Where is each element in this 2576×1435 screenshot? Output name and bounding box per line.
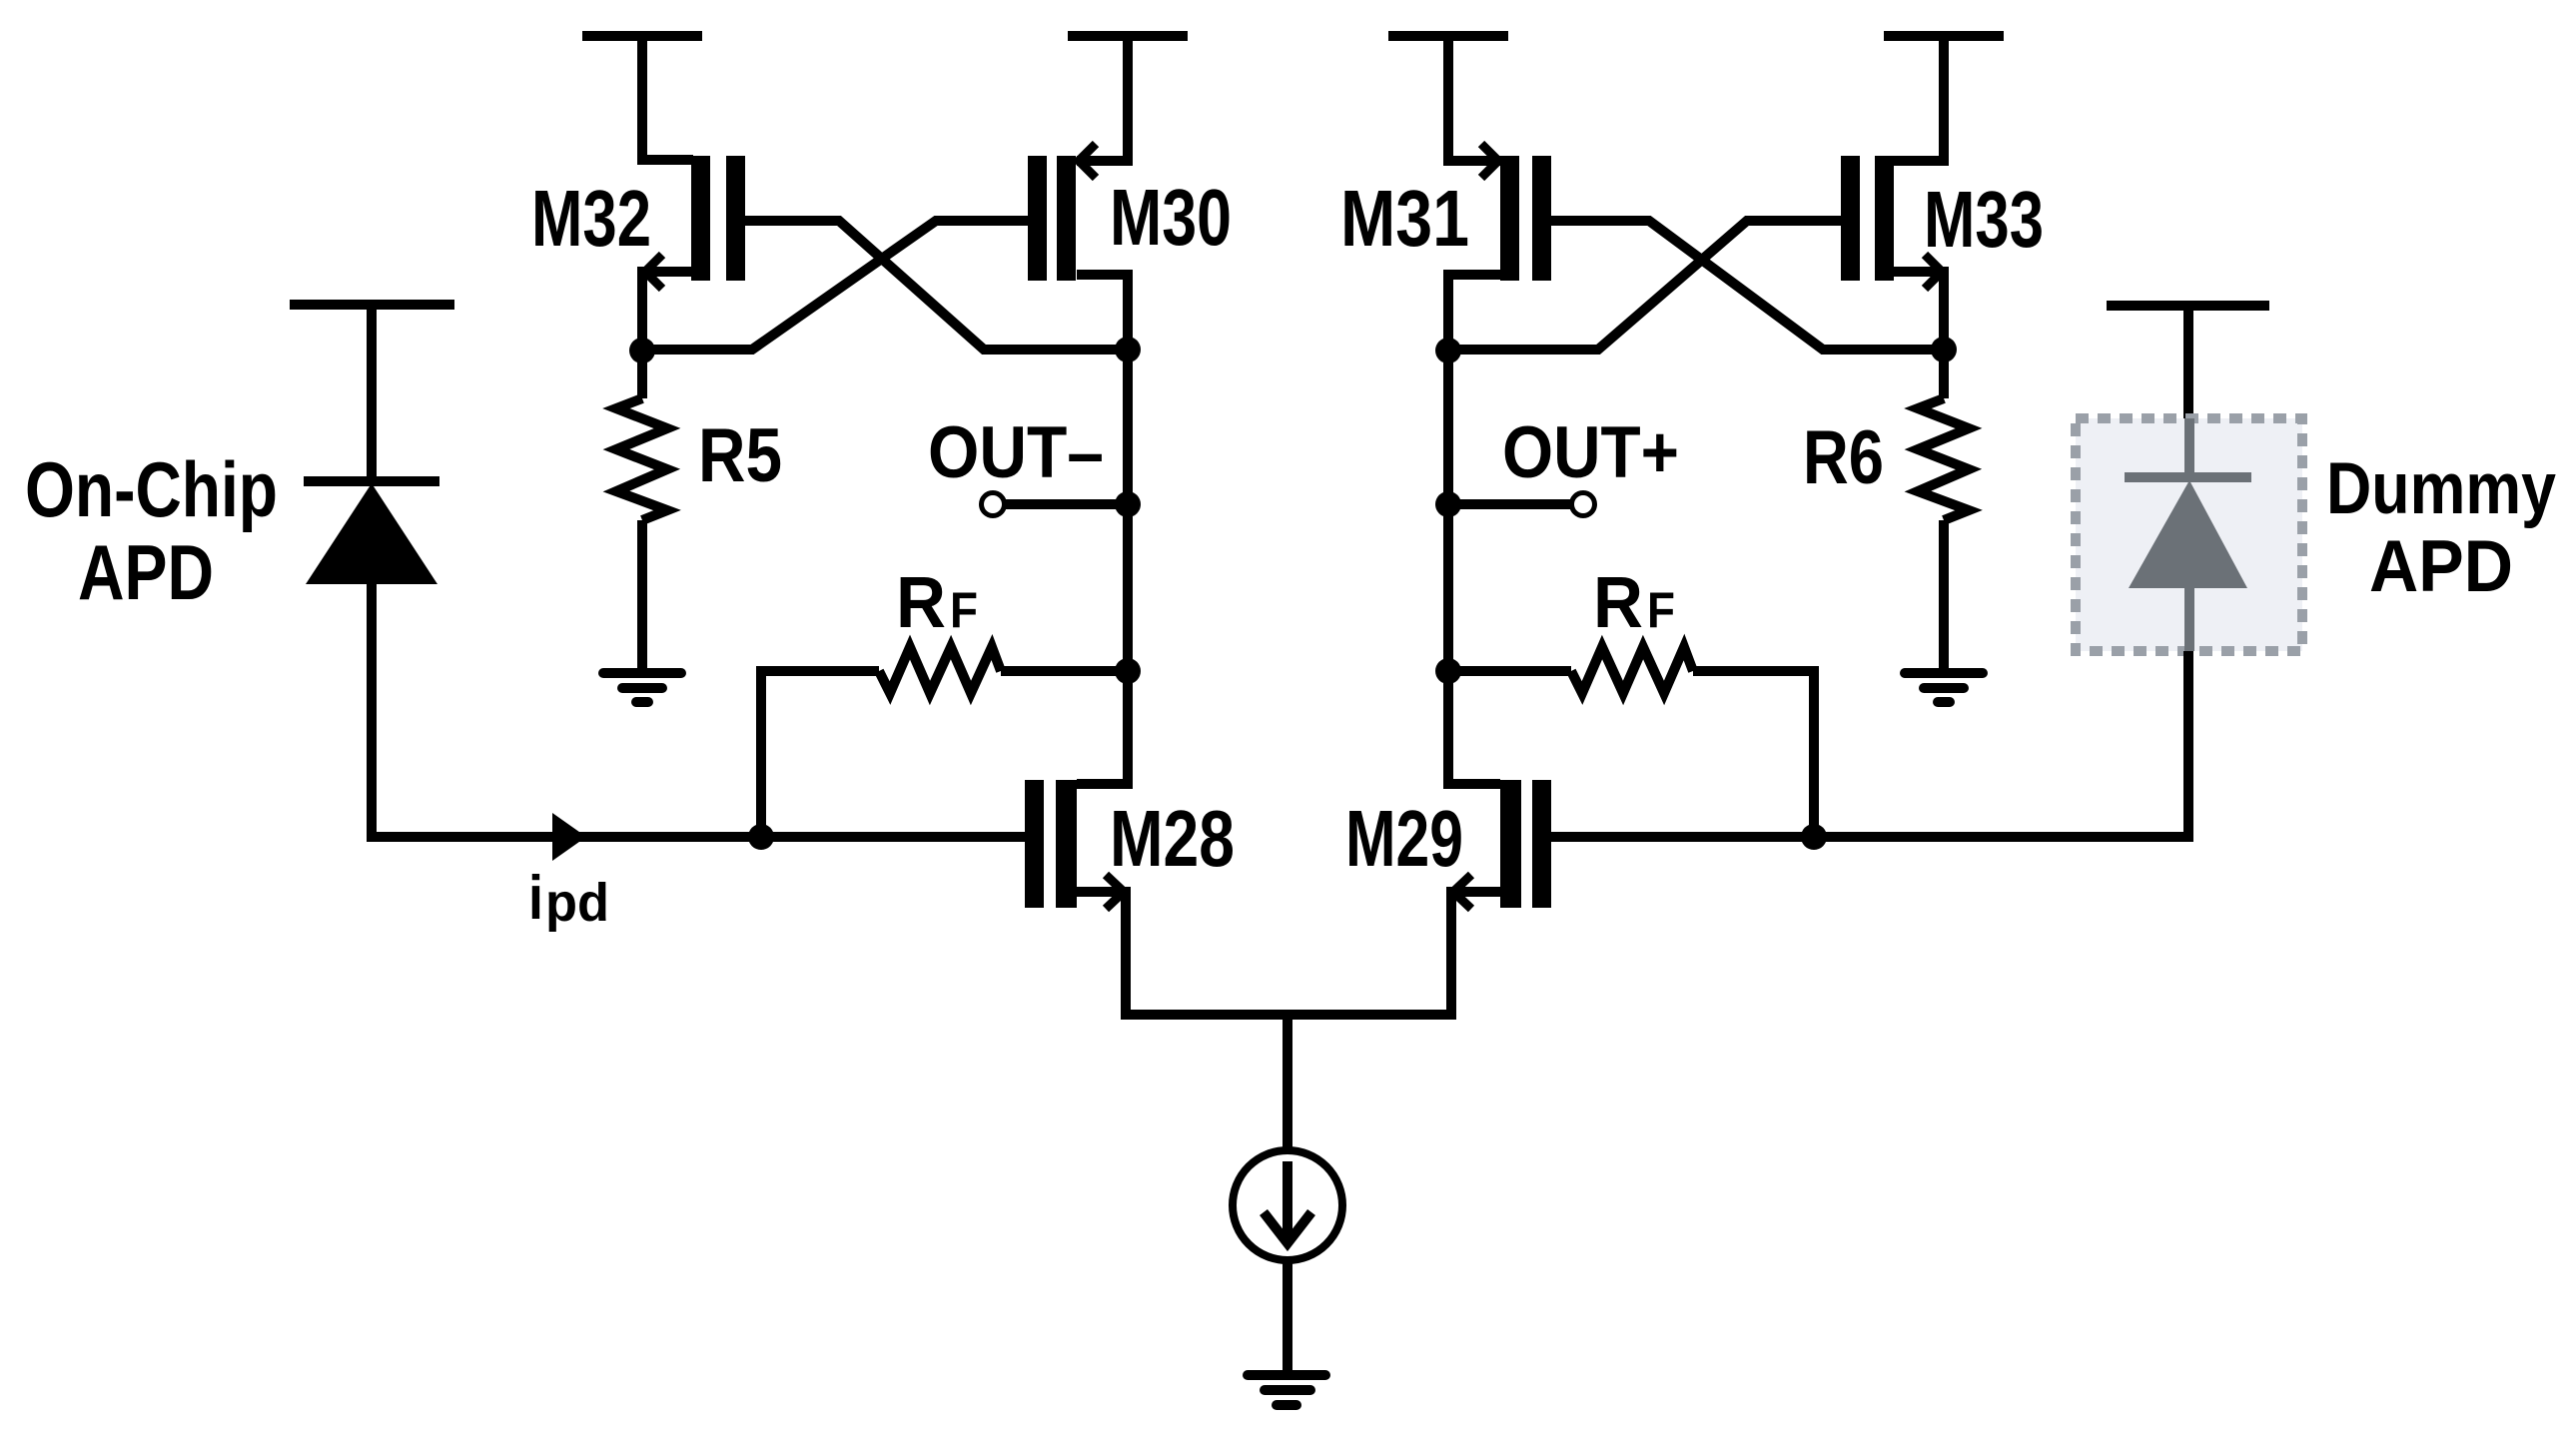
resistor R5 xyxy=(616,351,667,673)
node RF right / M29 drain xyxy=(1435,658,1461,684)
ground below R5 xyxy=(603,673,681,702)
wire input gate line ipd xyxy=(367,832,1025,842)
transistor M33 xyxy=(1841,156,1942,289)
terminal OUT+ xyxy=(1448,493,1595,516)
label RF left xyxy=(896,563,978,643)
svg-text:M31: M31 xyxy=(1340,174,1469,263)
wire M29 drain stub xyxy=(1443,779,1500,789)
wire M33 source to rail xyxy=(1894,36,1944,161)
power rail above M30 xyxy=(1068,31,1188,41)
node M32 drain xyxy=(629,338,655,363)
resistor RF right xyxy=(1448,647,1819,693)
svg-text:R: R xyxy=(896,563,946,643)
svg-text:OUT–: OUT– xyxy=(928,412,1104,493)
resistor R6 xyxy=(1918,351,1969,673)
dummy APD box xyxy=(2076,418,2302,651)
wire M33 gate lead xyxy=(1448,221,1841,350)
svg-text:pd: pd xyxy=(545,873,609,933)
svg-text:F: F xyxy=(1647,582,1675,638)
wire M29 drain vertical xyxy=(1443,671,1453,784)
svg-text:R: R xyxy=(1593,563,1643,643)
node RF left / M28 drain xyxy=(1115,658,1141,684)
node OUT- xyxy=(1115,491,1141,517)
wire M28 source vertical xyxy=(1121,892,1131,1015)
wire APD anode to input xyxy=(367,584,377,837)
svg-text:M32: M32 xyxy=(531,174,651,263)
transistor M29 xyxy=(1446,780,1551,909)
wire M32 source to rail xyxy=(642,36,693,160)
wire M30 drain lead xyxy=(1077,275,1128,351)
power rail above on-chip APD xyxy=(290,300,454,310)
wire OUT- vertical (M30 drain to M28 drain) xyxy=(1123,350,1133,784)
svg-text:APD: APD xyxy=(78,528,214,616)
transistor M30 xyxy=(1028,144,1096,281)
wire M31 gate lead xyxy=(1551,221,1944,350)
wire M32 drain lead xyxy=(642,272,693,351)
node M33 drain / R6 top xyxy=(1931,337,1957,362)
wire OUT+ vertical (M31 drain to M29 drain) xyxy=(1443,350,1453,784)
ground below current source xyxy=(1248,1375,1325,1405)
wire dummy APD anode xyxy=(2183,651,2193,837)
transistor M28 xyxy=(1025,780,1131,909)
wire tail to current source xyxy=(1283,1015,1292,1150)
transistor M32 xyxy=(645,156,745,289)
power rail above dummy APD xyxy=(2107,301,2269,311)
ground below R6 xyxy=(1905,673,1983,702)
resistor RF left xyxy=(756,647,1128,693)
wire dummy APD top xyxy=(2183,306,2193,418)
power rail above M32 xyxy=(582,31,702,41)
svg-text:On-Chip: On-Chip xyxy=(25,445,278,533)
node OUT+ xyxy=(1435,491,1461,517)
arrow ipd current direction xyxy=(552,813,586,861)
wire M28 drain vertical xyxy=(1123,671,1133,784)
wire M31 drain lead xyxy=(1448,275,1500,351)
wire current source to ground xyxy=(1283,1260,1292,1375)
wire RF right feedback vertical xyxy=(1809,671,1819,837)
svg-text:M29: M29 xyxy=(1345,794,1463,883)
wire M29 gate to dummy APD xyxy=(1551,832,2193,842)
current source I1 xyxy=(1233,1150,1342,1260)
svg-text:M33: M33 xyxy=(1924,175,2044,264)
node M30 drain / OUT- column xyxy=(1115,337,1141,362)
wire RF left feedback vertical xyxy=(756,671,766,837)
diode on-chip APD xyxy=(304,481,439,584)
diode dummy APD xyxy=(2125,418,2251,651)
svg-text:i: i xyxy=(528,864,543,933)
terminal OUT- xyxy=(982,493,1129,516)
label RF right xyxy=(1593,563,1675,643)
svg-text:R5: R5 xyxy=(698,413,782,498)
svg-text:R6: R6 xyxy=(1803,415,1884,500)
label On-Chip APD xyxy=(25,445,278,616)
node RF left gate junction xyxy=(748,824,774,850)
svg-text:APD: APD xyxy=(2369,526,2513,607)
svg-text:OUT+: OUT+ xyxy=(1502,412,1679,493)
wire APD cathode xyxy=(367,305,377,481)
svg-text:M28: M28 xyxy=(1110,794,1235,883)
svg-text:M30: M30 xyxy=(1110,173,1232,262)
svg-text:F: F xyxy=(950,582,978,638)
wire M30 source to rail xyxy=(1077,36,1128,161)
node RF right gate junction xyxy=(1801,824,1827,850)
wire tail horizontal xyxy=(1121,1010,1456,1020)
power rail above M33 xyxy=(1884,31,2004,41)
transistor M31 xyxy=(1481,144,1551,281)
svg-text:Dummy: Dummy xyxy=(2326,448,2556,529)
wire M33 drain lead xyxy=(1894,272,1944,351)
power rail above M31 xyxy=(1388,31,1508,41)
wire M28 drain stub xyxy=(1077,779,1133,789)
wire M32 gate lead xyxy=(745,221,1128,350)
wire M30 gate lead xyxy=(642,221,1028,350)
wire M31 source to rail xyxy=(1448,36,1500,161)
wire M29 source vertical xyxy=(1446,892,1456,1015)
label Dummy APD xyxy=(2326,448,2556,607)
node M31 drain xyxy=(1435,338,1461,363)
label ipd xyxy=(528,864,609,933)
